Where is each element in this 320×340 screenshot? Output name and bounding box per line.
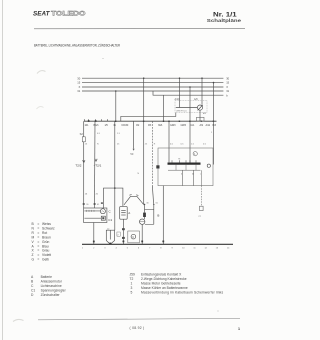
svg-text:1: 1 — [238, 327, 240, 331]
junction battery/rail — [123, 241, 125, 243]
svg-text:Gelb: Gelb — [42, 258, 49, 262]
stub 50 with arrow — [130, 121, 134, 156]
svg-text:A/11: A/11 — [206, 124, 211, 127]
wire X to bar — [189, 87, 191, 163]
heavy positive cable bar — [168, 163, 201, 165]
track 30 — [82, 77, 223, 79]
cable lug pin 3 — [185, 160, 187, 162]
wire from bar to cable — [213, 121, 215, 164]
colour code legend — [32, 222, 55, 261]
svg-text:Anlassermotor: Anlassermotor — [41, 279, 63, 283]
charge warning lamp K2 — [197, 105, 202, 110]
battery ground terminal lower — [122, 237, 125, 239]
svg-text:Schwarz: Schwarz — [42, 227, 55, 231]
rail ticks and numbers — [82, 247, 230, 249]
instrument cluster dashed box — [175, 101, 207, 113]
svg-text:=: = — [37, 227, 39, 231]
svg-text:Zündschalter: Zündschalter — [41, 293, 61, 297]
junction generator/rail — [93, 241, 95, 243]
bar pin 3 — [95, 119, 97, 121]
circled terminal mark — [193, 152, 197, 156]
bar pin 5 — [107, 119, 109, 121]
bar pin 2 — [88, 119, 90, 121]
svg-text:=: = — [37, 240, 39, 244]
svg-text:TOLEDO: TOLEDO — [51, 11, 86, 18]
svg-text:=: = — [37, 244, 39, 248]
junction bar/lamp wire A9 — [201, 121, 202, 122]
connector T2/1 — [94, 159, 102, 168]
generator terminal ticks — [83, 203, 85, 205]
svg-text:C: C — [132, 235, 134, 239]
bar pin 4 — [101, 119, 103, 121]
junction track30/lamp wire A9 — [201, 77, 203, 79]
wire 30 to starter — [143, 78, 145, 204]
cable lug pin 4 — [189, 160, 191, 162]
svg-text:BA/1: BA/1 — [94, 124, 100, 127]
wire engine ground — [162, 186, 164, 245]
junction bar/track15 wire — [213, 121, 214, 122]
wire battery ground — [122, 219, 124, 244]
junction on jog — [114, 187, 116, 189]
fuse S — [80, 132, 86, 142]
svg-text:G: G — [32, 258, 35, 262]
svg-text:T2/2: T2/2 — [75, 164, 81, 168]
svg-text:30/1: 30/1 — [158, 124, 163, 127]
svg-text:BATTERIE, LICHTMASCHINE, ANLAS: BATTERIE, LICHTMASCHINE, ANLASSERMOTOR, … — [34, 43, 120, 48]
svg-text:5: 5 — [131, 291, 133, 295]
svg-text:A: A — [128, 211, 130, 215]
solenoid coil — [143, 213, 146, 217]
terminal 30 — [143, 204, 146, 206]
svg-text:Masseverbindung im Kabelbaum S: Masseverbindung im Kabelbaum Scheinwerfe… — [141, 291, 223, 295]
svg-text:=: = — [37, 253, 39, 257]
svg-text:M: M — [32, 236, 35, 240]
footer rule — [38, 318, 240, 320]
junction bar pin3 — [95, 120, 97, 122]
svg-text:GR/3: GR/3 — [170, 124, 176, 127]
component legend left — [31, 275, 67, 297]
terminal eye — [207, 164, 210, 167]
svg-text:3: 3 — [131, 286, 133, 290]
svg-text:Schaltpläne: Schaltpläne — [207, 18, 242, 24]
junction bar pin2 — [88, 120, 90, 122]
wire D+ — [94, 121, 97, 208]
wire track31 bar to ground funnel — [114, 121, 116, 230]
svg-text:Masse Motor Getriebeseite: Masse Motor Getriebeseite — [141, 282, 181, 286]
bar junction squares — [88, 120, 214, 122]
svg-text:v: v — [200, 173, 201, 175]
connector T2/2 — [75, 160, 85, 167]
wire cable to connector stub — [200, 170, 202, 185]
wire track15 to bar — [213, 83, 215, 122]
svg-text:Spannungsregler: Spannungsregler — [41, 288, 67, 292]
svg-text:Violett: Violett — [42, 253, 51, 257]
wire generator ground — [93, 223, 95, 245]
terminal 50 — [153, 204, 154, 205]
junction bar/cable wire — [168, 121, 169, 122]
svg-text:U/9B POL.6: U/9B POL.6 — [176, 111, 188, 113]
svg-text:31: 31 — [226, 89, 229, 93]
svg-text:2-Wege-Dichtung Kabelstrecke: 2-Wege-Dichtung Kabelstrecke — [141, 277, 187, 281]
box terminal — [156, 165, 159, 168]
svg-text:J59: J59 — [130, 273, 135, 277]
stator circle — [100, 209, 105, 214]
svg-text:1: 1 — [131, 282, 133, 286]
svg-text:=: = — [37, 236, 39, 240]
wire lamp to bar — [199, 110, 201, 121]
svg-text:31: 31 — [77, 89, 80, 93]
ground crimp left slant — [106, 241, 110, 245]
wire track50 to bar — [163, 95, 165, 121]
junction trackX/wire — [189, 86, 191, 88]
svg-text:=: = — [37, 249, 39, 253]
regulator feed — [84, 217, 101, 219]
battery positive cable — [124, 196, 144, 204]
svg-text:X: X — [226, 85, 228, 89]
svg-text:A/10: A/10 — [175, 98, 181, 101]
junction track30/lamp wire A10 — [179, 77, 181, 79]
component legend right — [130, 273, 224, 295]
svg-text:–T2/1: –T2/1 — [94, 164, 102, 168]
bar pin 1 — [83, 119, 85, 121]
wire stub dashed — [200, 186, 202, 207]
svg-text:C1: C1 — [31, 288, 35, 292]
junction track31/battery wire — [115, 90, 117, 92]
wire strip to box bottom left — [181, 170, 183, 185]
svg-text:T2: T2 — [130, 277, 134, 281]
ground crimp centre wire — [109, 230, 111, 239]
solenoid bridge — [145, 209, 154, 211]
svg-text:Grün: Grün — [42, 240, 49, 244]
svg-text:Entlastungsrelais Kontakt X: Entlastungsrelais Kontakt X — [141, 273, 182, 277]
regulator — [101, 216, 105, 220]
connector tag 2 — [117, 232, 120, 236]
svg-text:GR/5: GR/5 — [181, 124, 187, 127]
cable strip tick 1 — [175, 165, 177, 170]
wire to lamp — [176, 107, 198, 109]
wire jog to generator D+ and battery — [104, 188, 123, 208]
svg-text:Weiss: Weiss — [42, 222, 51, 226]
svg-text:Nr. 1/1: Nr. 1/1 — [213, 11, 237, 18]
junction bar/starter wire — [143, 121, 144, 122]
cable strip tick 2 — [185, 165, 187, 170]
junction bar/trackX wire — [189, 121, 190, 122]
svg-text:Braun: Braun — [42, 236, 51, 240]
wire strip to box bottom right — [192, 170, 194, 185]
SEAT logo wordmark — [33, 11, 86, 18]
svg-text:X: X — [79, 85, 81, 89]
wire bar to cable lug — [168, 121, 170, 162]
junction bar/battery wire — [115, 121, 116, 122]
junction track15/wire — [213, 82, 215, 84]
relay J59 contact box on bar — [197, 117, 205, 121]
ground crimp sides — [106, 230, 114, 240]
svg-text:Lichtmaschine: Lichtmaschine — [41, 284, 62, 288]
svg-text:Rot: Rot — [42, 231, 47, 235]
svg-text:Z: Z — [32, 253, 34, 257]
svg-text:15: 15 — [226, 81, 229, 85]
svg-text:B: B — [157, 213, 159, 217]
junction starter/rail — [141, 241, 143, 243]
ground point 10 on rail — [109, 243, 111, 245]
svg-text:Blau: Blau — [42, 244, 49, 248]
svg-text:Grau: Grau — [42, 249, 49, 253]
motor — [144, 217, 146, 219]
cable lug pin 2 — [179, 160, 181, 162]
svg-text:Batterie: Batterie — [41, 275, 53, 279]
svg-text:=: = — [37, 258, 39, 262]
junction track30/starter wire — [143, 77, 145, 79]
cable strip tick 3 — [195, 165, 197, 170]
wire bar to instrument connector — [121, 113, 176, 122]
junction bar/lamp wire A10 — [179, 121, 180, 122]
svg-text:C1: C1 — [108, 218, 112, 222]
generator box — [84, 208, 107, 223]
connector stub plug — [200, 206, 204, 210]
ground strap box — [128, 231, 140, 243]
cable lugs — [129, 194, 138, 197]
svg-text:( 08.92 ): ( 08.92 ) — [130, 326, 145, 330]
svg-text:NO/30: NO/30 — [122, 124, 129, 127]
svg-text:=: = — [37, 231, 39, 235]
cable lug pin 5 — [195, 160, 197, 162]
bar pin labels — [85, 124, 217, 127]
svg-text:Masse Kühler an Batteriewanne: Masse Kühler an Batteriewanne — [141, 286, 188, 290]
track 31 — [82, 90, 223, 92]
wire starter ground — [141, 224, 143, 244]
cable lug pin 1 — [171, 160, 173, 162]
track 50 (short) — [153, 91, 223, 95]
svg-text:30: 30 — [226, 76, 229, 80]
fuse S wire — [83, 121, 85, 208]
svg-text:SEAT: SEAT — [33, 11, 51, 18]
header rule — [34, 27, 245, 29]
svg-text:15: 15 — [77, 81, 80, 85]
stator winding feed — [84, 210, 100, 212]
wire 31 to bar — [115, 91, 117, 121]
svg-text:=: = — [37, 222, 39, 226]
track X — [82, 86, 223, 88]
battery ground terminal upper — [122, 228, 125, 230]
svg-text:S2: S2 — [80, 132, 84, 136]
svg-text:30: 30 — [77, 76, 80, 80]
track 15 — [82, 82, 223, 84]
junction engine/rail — [162, 241, 164, 243]
wire lamp left — [179, 78, 181, 107]
wire lamp right — [201, 78, 203, 105]
junction bar/track50 wire — [163, 121, 164, 122]
ground crimp right slant — [110, 241, 114, 245]
cable terminal strip line — [168, 169, 201, 171]
wire to starter 50 — [151, 121, 153, 186]
